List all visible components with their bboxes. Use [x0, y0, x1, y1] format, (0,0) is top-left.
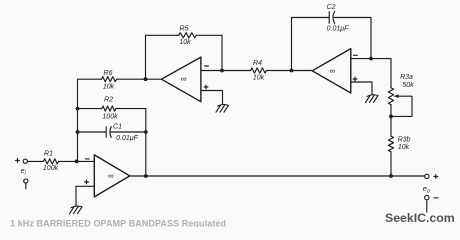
svg-text:C1: C1 — [113, 124, 122, 131]
svg-text:100k: 100k — [43, 165, 59, 172]
svg-text:R4: R4 — [253, 60, 262, 67]
svg-text:∞: ∞ — [108, 172, 114, 181]
svg-text:0.01μF: 0.01μF — [327, 26, 349, 33]
svg-text:R3b: R3b — [398, 137, 411, 144]
svg-text:10k: 10k — [253, 75, 265, 82]
svg-text:R6: R6 — [104, 70, 113, 77]
svg-text:SeekIC.com: SeekIC.com — [385, 211, 455, 225]
svg-text:R5: R5 — [180, 26, 189, 33]
svg-text:C2: C2 — [327, 4, 336, 11]
svg-text:10k: 10k — [179, 39, 191, 46]
svg-text:∞: ∞ — [329, 66, 335, 75]
svg-text:R3a: R3a — [400, 74, 413, 81]
svg-text:100k: 100k — [102, 114, 118, 121]
svg-text:R1: R1 — [44, 150, 53, 157]
svg-text:10k: 10k — [398, 144, 410, 151]
svg-text:1 kHz BARRIERED OPAMP BANDPAS: 1 kHz BARRIERED OPAMP BANDPASS Regulated — [10, 219, 226, 227]
svg-text:R2: R2 — [104, 97, 113, 104]
svg-text:0.01μF: 0.01μF — [116, 135, 138, 142]
svg-text:10k: 10k — [103, 84, 115, 91]
svg-text:50k: 50k — [402, 82, 414, 89]
svg-text:∞: ∞ — [181, 75, 187, 84]
